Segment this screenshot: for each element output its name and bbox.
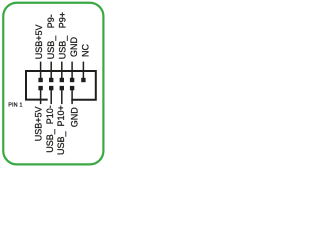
pin 3 square (top row)	[49, 78, 53, 82]
connector USB header outline (open at bottom middle)	[26, 71, 96, 100]
wire pin2 bottom tick	[40, 90, 42, 105]
pin 1 square (top row)	[38, 78, 42, 82]
pin 5 square (top row)	[60, 78, 64, 82]
svg-text:USB_P9-: USB_P9-	[46, 14, 56, 59]
pin 9 square (top row)	[81, 78, 85, 82]
svg-text:NC: NC	[80, 44, 90, 57]
wire pin8 bottom tick	[71, 90, 73, 105]
svg-text:USB+5V: USB+5V	[33, 107, 43, 142]
wire pin7 top tick	[71, 62, 73, 80]
wire pin6 bottom tick	[61, 90, 63, 105]
wire pin4 bottom tick	[50, 90, 52, 105]
wire pin3 top tick	[50, 62, 52, 80]
wire pin5 top tick	[61, 62, 63, 80]
pin 4 square (bottom row)	[49, 86, 53, 90]
background	[0, 0, 108, 167]
pin 6 square (bottom row)	[60, 86, 64, 90]
svg-text:USB+5V: USB+5V	[34, 25, 44, 60]
svg-text:GND: GND	[69, 37, 79, 58]
green frame	[3, 3, 103, 165]
wire pin1 top tick	[40, 62, 42, 80]
pin 8 square (bottom row)	[70, 86, 74, 90]
pin 7 square (top row)	[70, 78, 74, 82]
wire pin9 top tick	[82, 62, 84, 80]
svg-text:GND: GND	[70, 107, 80, 128]
pin 2 square (bottom row)	[38, 86, 42, 90]
svg-text:PIN 1: PIN 1	[8, 103, 22, 109]
